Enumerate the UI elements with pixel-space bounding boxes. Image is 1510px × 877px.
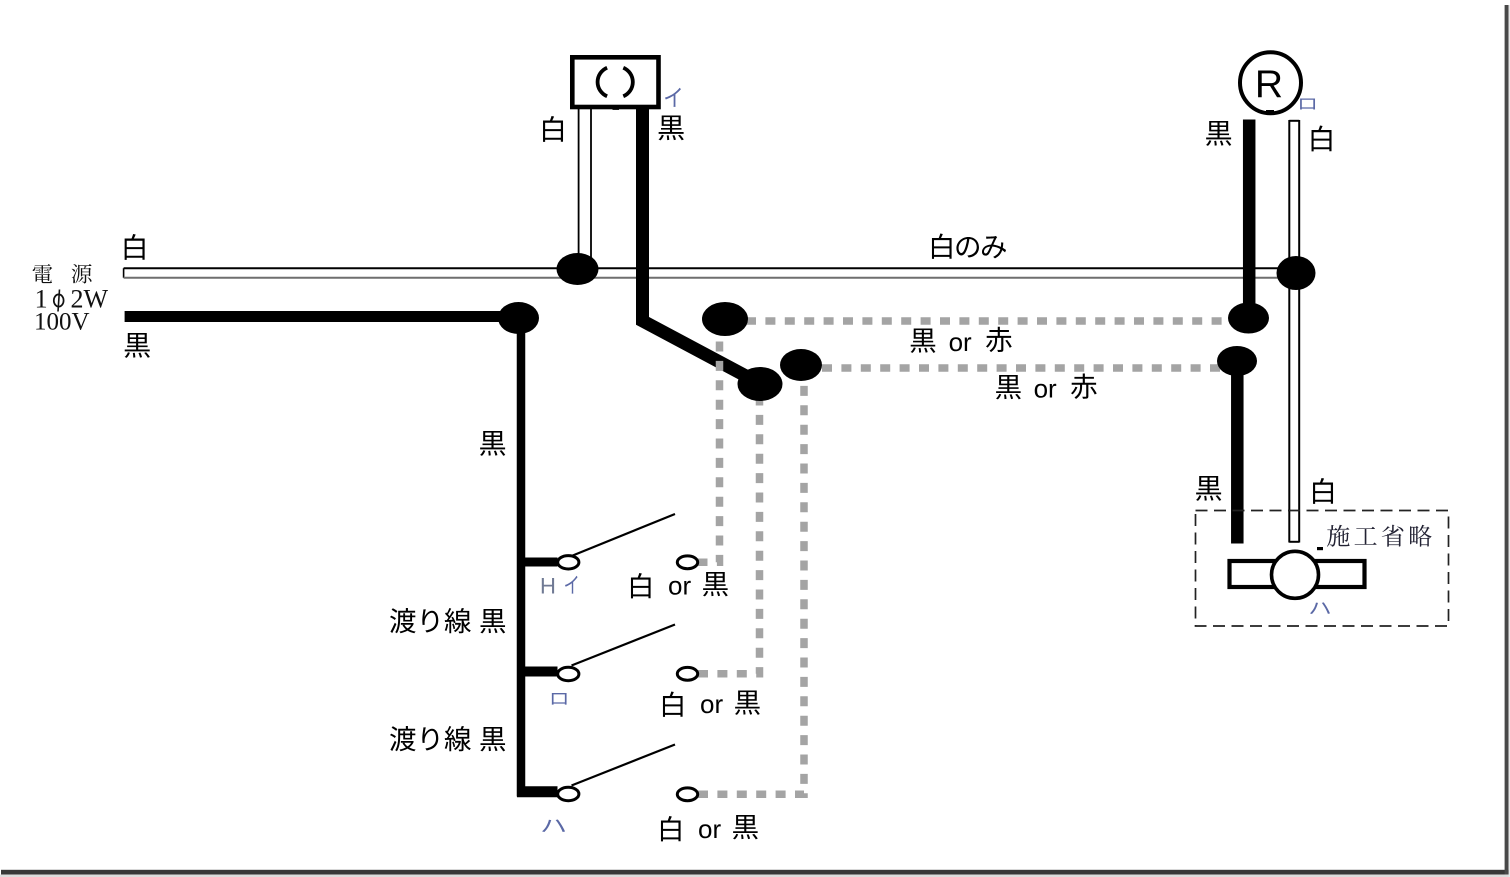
label ハ for 施工省略 device (1310, 602, 1330, 614)
label 黒 on switch column (480, 431, 505, 456)
label 白 or 黒 (switch ロ return) (663, 691, 683, 716)
wire: white neutral line from power source (double-line) (124, 268, 1296, 278)
ceiling light fixture (引掛シーリング) イ (572, 57, 658, 110)
label ロ for switch ロ (552, 693, 567, 705)
junction: 施工省略 black x dashed return (1217, 346, 1257, 376)
fan/device symbol ハ inside 施工省略 (1230, 547, 1365, 598)
wire: stub to switch イ (517, 558, 558, 567)
wire: white conductor from lamp receptacle ロ down to 施工省略 box (1289, 120, 1299, 543)
junction: fixture black meets switch イ return (738, 367, 783, 401)
label 電源 1φ2W 100V (33, 264, 53, 283)
page border shadow bottom (1, 870, 1510, 875)
label 黒 on power live (125, 333, 150, 358)
phi symbol (54, 294, 64, 306)
switch ハ (558, 745, 675, 801)
svg-text:R: R (1255, 63, 1283, 106)
label 黒 on receptacle black wire (1206, 121, 1231, 146)
svg-text:or: or (949, 327, 972, 357)
lamp receptacle R ロ (1240, 52, 1301, 113)
return terminal of switch ハ (677, 788, 697, 801)
label 施工省略 (1327, 525, 1350, 547)
label 黒 lower right (1196, 476, 1221, 501)
return terminal of switch イ (677, 556, 697, 569)
label 渡り線 黒 (lower jumper) (390, 726, 416, 751)
label 白 on power neutral (125, 234, 145, 260)
wire: dashed return 黒or赤 from joint to receptacle joint (746, 317, 1230, 325)
svg-text:H: H (540, 574, 556, 599)
label 黒 or 赤 (lower dashed wire) (996, 375, 1021, 399)
switch イ (558, 514, 675, 569)
svg-text:or: or (668, 571, 691, 601)
label 白 on receptacle white wire (1312, 125, 1332, 151)
label 白 or 黒 (switch ハ return) (661, 816, 681, 841)
wire: black live line from power source (125, 311, 519, 322)
junction: neutral line x fixture white (557, 253, 599, 285)
wire: jumper stub to switch ロ (517, 667, 558, 677)
wire: dashed 白or黒 from switch ハ up to joint (698, 380, 804, 794)
wire: black conductor from lamp receptacle ロ down to joint (1243, 120, 1256, 319)
wire: dashed 白or黒 from switch ロ up to joint (698, 400, 760, 674)
wire: black conductor from ceiling fixture イ, bends to joint (643, 109, 761, 384)
label 黒 or 赤 (upper dashed wire) (911, 328, 936, 352)
施工省略 dashed outline box (1196, 511, 1449, 627)
svg-text:100V: 100V (34, 309, 90, 336)
junction: neutral line x receptacle white (1277, 256, 1316, 290)
return terminal of switch ロ (677, 667, 697, 680)
switch ロ (558, 625, 675, 681)
junction: live line corner to switch column (498, 302, 539, 334)
label 黒 on fixture black wire (659, 115, 684, 140)
wire: black feed down the switch column (517, 330, 526, 797)
label 白 or 黒 (switch イ return) (631, 573, 651, 598)
svg-text:or: or (698, 814, 721, 844)
junction: receptacle black x dashed return (1228, 303, 1269, 334)
wire: black conductor from joint down to 施工省略 box (1231, 361, 1244, 544)
junction: switch イ return (702, 302, 748, 336)
page border shadow right (1505, 5, 1509, 875)
svg-text:or: or (1034, 374, 1057, 404)
wire: jumper stub to switch ハ (517, 786, 558, 797)
junction: switch ハ return (780, 349, 822, 381)
wire: dashed return 黒or赤 from joint to 施工省略 joint (822, 364, 1220, 372)
label 白のみ on neutral line (932, 233, 952, 258)
wire: white conductor from ceiling fixture イ down to neutral line (579, 109, 591, 259)
label 渡り線 黒 (upper jumper) (390, 608, 416, 633)
svg-text:or: or (700, 689, 723, 719)
label ロ for receptacle (1300, 99, 1315, 110)
label ハ for switch ハ (542, 820, 565, 832)
label 白 lower right (1313, 478, 1333, 504)
wire: dashed 白or黒 from switch イ up to joint (698, 337, 720, 562)
label イ for fixture (665, 88, 681, 107)
label 白 on fixture white wire (543, 116, 563, 142)
